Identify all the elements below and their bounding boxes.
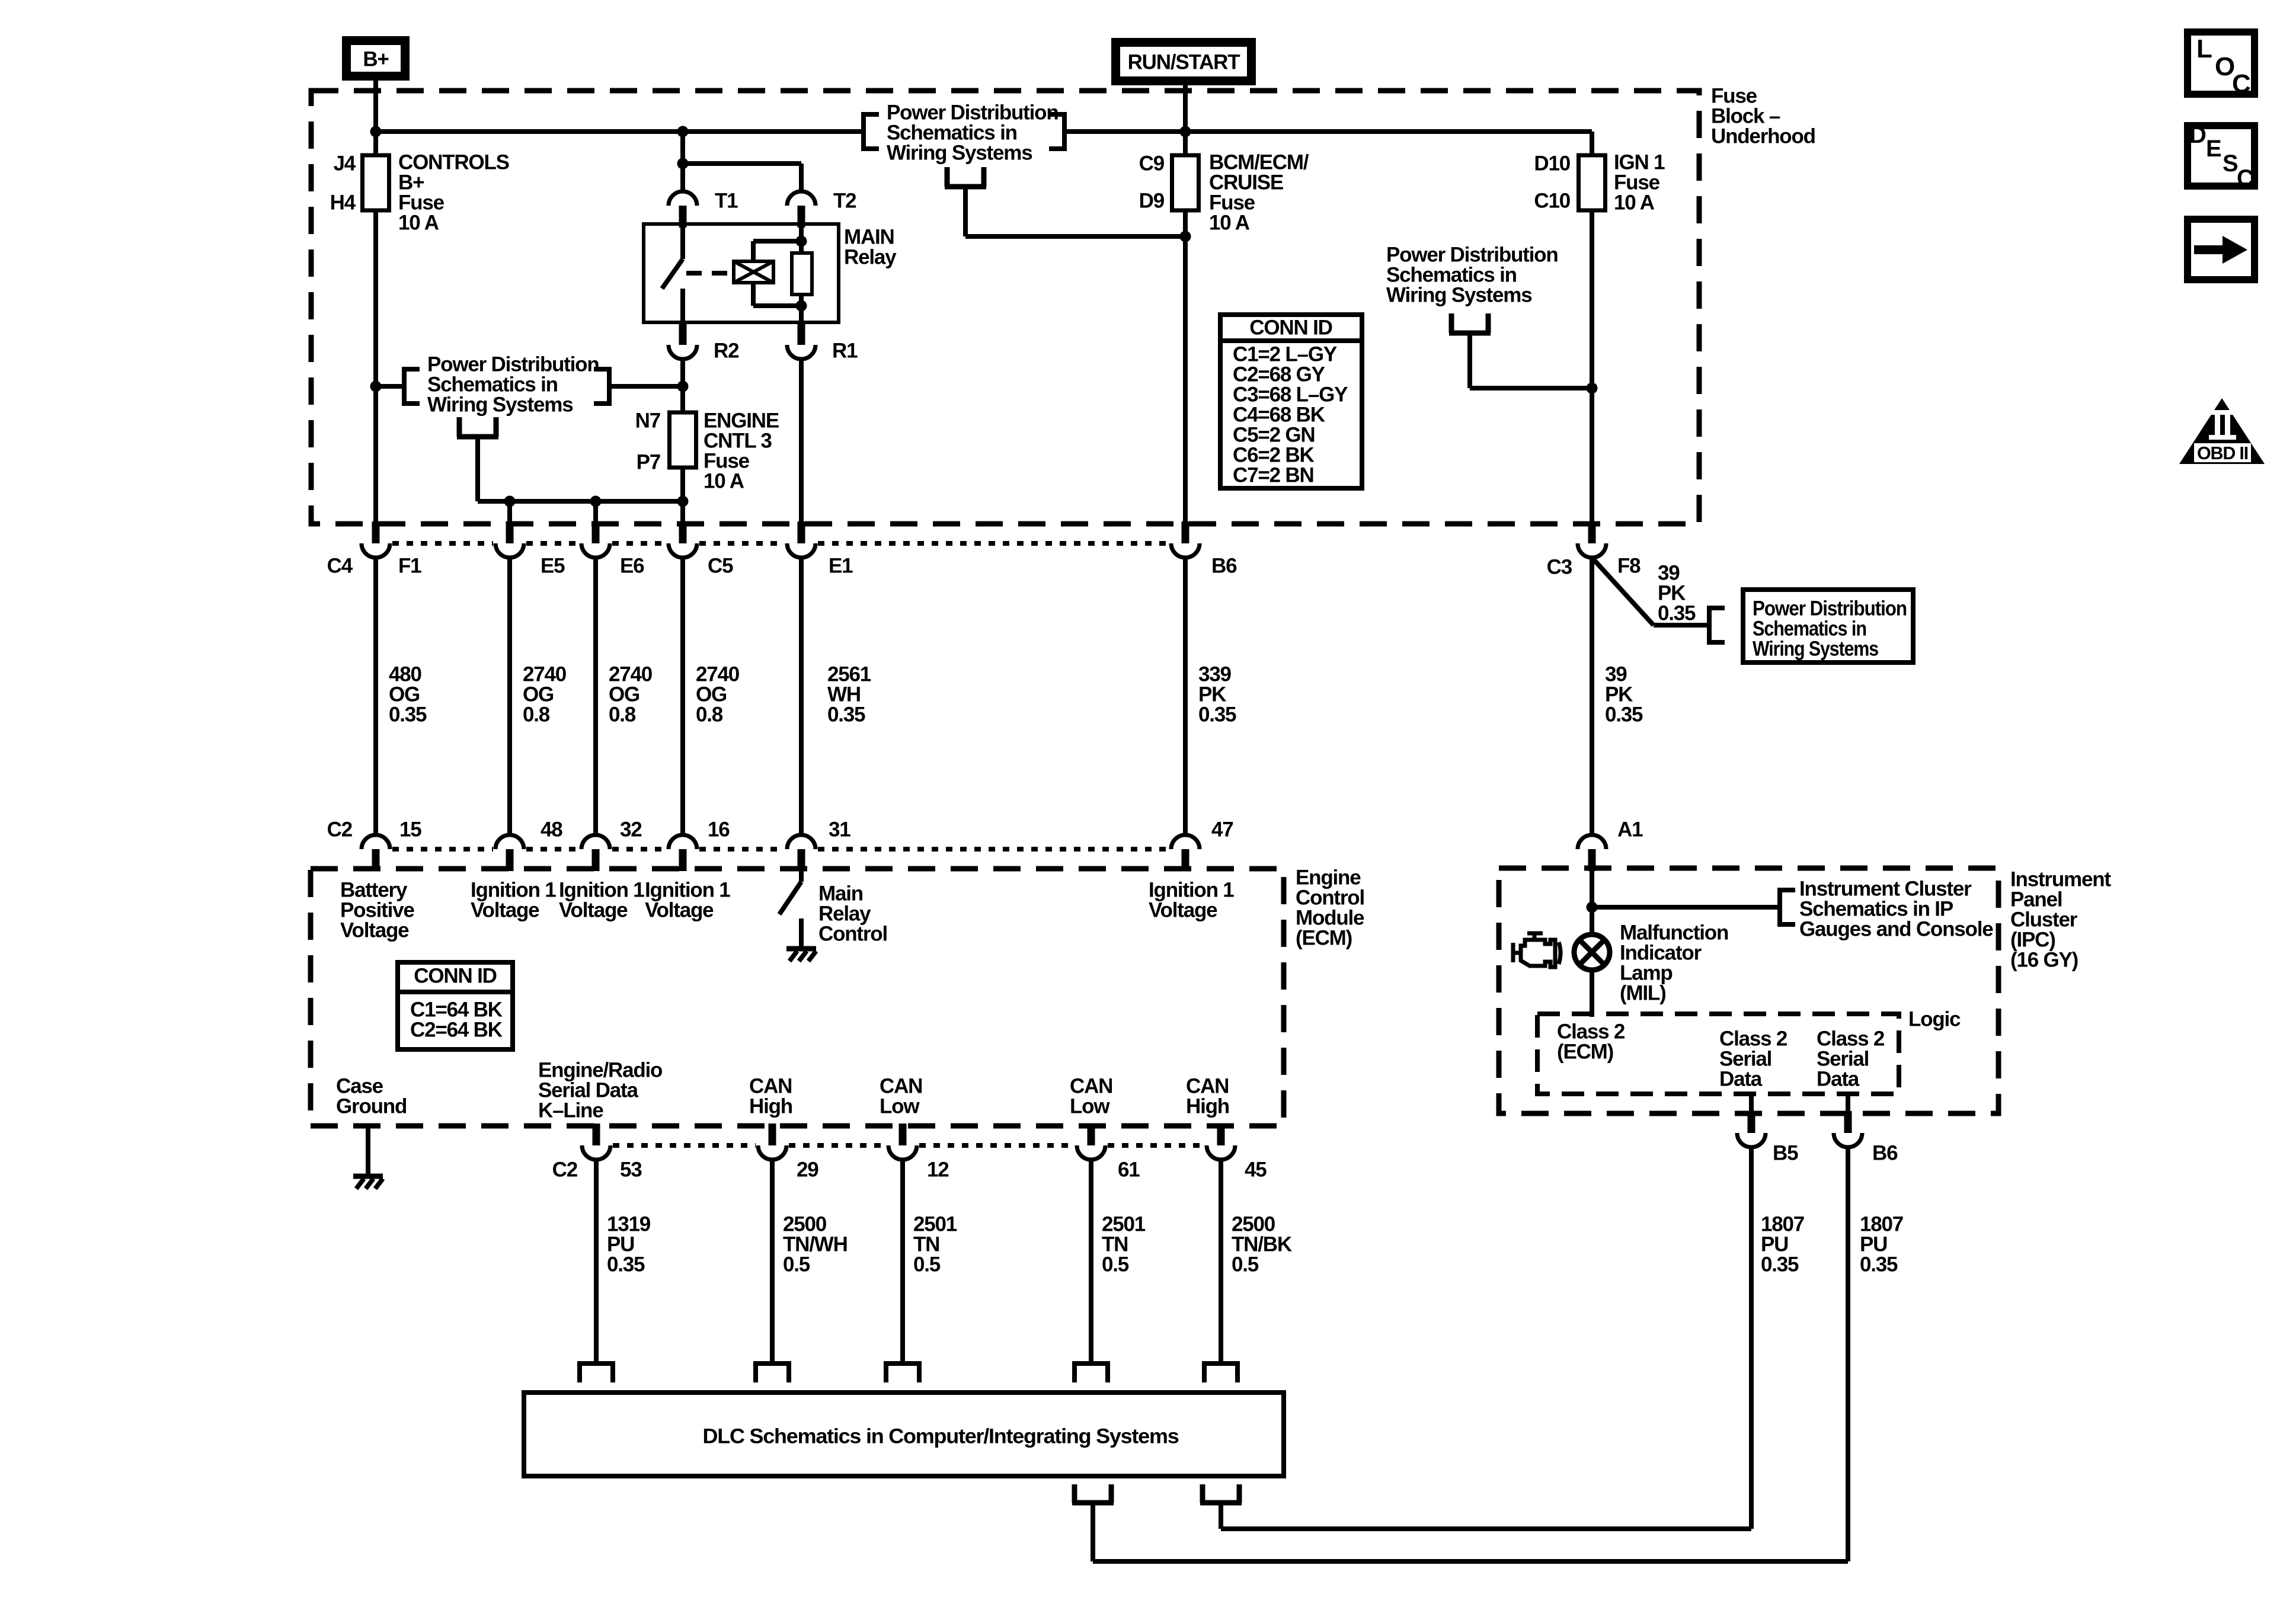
svg-text:F8: F8: [1617, 555, 1641, 578]
svg-text:N7: N7: [635, 409, 660, 433]
svg-text:J4: J4: [333, 152, 356, 175]
svg-text:OBD II: OBD II: [2197, 443, 2248, 463]
svg-text:C10: C10: [1534, 190, 1570, 213]
svg-text:C1=64 BKC2=64 BK: C1=64 BKC2=64 BK: [410, 998, 503, 1042]
svg-text:D10: D10: [1534, 152, 1570, 175]
svg-text:E6: E6: [620, 555, 644, 578]
svg-text:CANLow: CANLow: [1070, 1075, 1112, 1118]
svg-text:C3: C3: [1547, 556, 1572, 579]
svg-text:D: D: [2189, 122, 2206, 148]
svg-text:MAINRelay: MAINRelay: [844, 226, 897, 269]
svg-text:CONN ID: CONN ID: [414, 965, 496, 988]
svg-text:CANHigh: CANHigh: [749, 1075, 792, 1118]
svg-text:53: 53: [620, 1158, 642, 1182]
svg-text:R1: R1: [832, 340, 858, 363]
svg-text:C: C: [2237, 165, 2253, 191]
svg-text:48: 48: [541, 818, 562, 841]
svg-text:C4: C4: [327, 555, 353, 578]
svg-text:D9: D9: [1139, 190, 1165, 213]
svg-text:B5: B5: [1773, 1142, 1798, 1165]
svg-text:H4: H4: [330, 191, 356, 215]
svg-text:Wiring Systems: Wiring Systems: [1753, 638, 1879, 661]
svg-text:61: 61: [1118, 1158, 1140, 1182]
svg-text:B6: B6: [1872, 1142, 1898, 1165]
svg-text:T2: T2: [833, 190, 856, 213]
svg-text:16: 16: [708, 818, 730, 841]
svg-text:12: 12: [927, 1158, 949, 1182]
svg-text:C2: C2: [327, 818, 353, 841]
svg-text:B+: B+: [363, 48, 389, 71]
svg-text:B6: B6: [1211, 555, 1237, 578]
svg-text:32: 32: [620, 818, 642, 841]
svg-text:29: 29: [797, 1158, 818, 1182]
svg-text:E5: E5: [541, 555, 565, 578]
svg-text:DLC Schematics in Computer/Int: DLC Schematics in Computer/Integrating S…: [703, 1425, 1179, 1448]
svg-text:T1: T1: [715, 190, 738, 213]
svg-text:P7: P7: [637, 451, 660, 474]
svg-text:C5: C5: [708, 555, 733, 578]
svg-text:C9: C9: [1139, 152, 1165, 175]
svg-text:Logic: Logic: [1908, 1008, 1961, 1031]
svg-text:31: 31: [829, 818, 850, 841]
svg-text:RUN/START: RUN/START: [1128, 51, 1240, 74]
svg-text:L: L: [2196, 34, 2212, 63]
svg-text:CANLow: CANLow: [880, 1075, 922, 1118]
svg-text:CANHigh: CANHigh: [1186, 1075, 1229, 1118]
svg-text:F1: F1: [398, 555, 421, 578]
svg-text:47: 47: [1211, 818, 1233, 841]
svg-text:BatteryPositiveVoltage: BatteryPositiveVoltage: [340, 879, 414, 942]
svg-text:A1: A1: [1617, 818, 1643, 841]
svg-text:E: E: [2206, 136, 2221, 162]
svg-text:45: 45: [1245, 1158, 1267, 1182]
svg-text:C: C: [2232, 69, 2250, 98]
svg-text:CONN ID: CONN ID: [1249, 316, 1332, 340]
svg-text:15: 15: [399, 818, 421, 841]
svg-text:R2: R2: [714, 340, 739, 363]
svg-text:E1: E1: [829, 555, 853, 578]
svg-text:S: S: [2223, 151, 2238, 177]
svg-text:C2: C2: [552, 1158, 578, 1182]
